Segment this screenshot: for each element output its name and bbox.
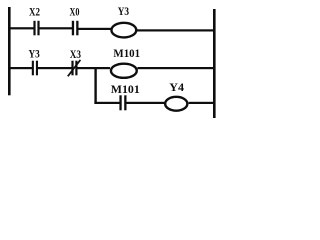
- contact M101: [119, 95, 126, 110]
- svg-text:X0: X0: [70, 7, 80, 19]
- svg-text:Y3: Y3: [29, 48, 40, 60]
- wire X2 to X0: [40, 27, 73, 29]
- svg-text:Y3: Y3: [118, 6, 130, 18]
- wire X0 to Y3 coil: [79, 28, 112, 30]
- branch wire down: [94, 67, 96, 104]
- wire X3 to M101 coil: [78, 67, 111, 69]
- wire Y4 coil to right rail: [189, 102, 214, 104]
- svg-text:Y4: Y4: [169, 82, 184, 94]
- left power rail: [8, 7, 11, 95]
- coil Y4: [165, 97, 187, 111]
- coil Y3: [111, 23, 136, 38]
- svg-text:M101: M101: [113, 48, 140, 60]
- svg-text:X2: X2: [29, 6, 40, 18]
- coil M101: [111, 64, 137, 78]
- svg-text:X3: X3: [70, 49, 81, 61]
- wire M101 coil to right rail: [138, 67, 214, 69]
- wire rung2 rail to Y3 contact: [9, 67, 33, 69]
- contact X3 (NC): [68, 60, 81, 76]
- wire Y3 coil to right rail: [137, 29, 214, 31]
- contact Y3: [32, 61, 38, 76]
- wire rung3 branch to M101 contact: [94, 102, 120, 104]
- wire rung1 rail to X2: [9, 27, 34, 29]
- right power rail: [213, 9, 216, 118]
- wire M101 contact to Y4 coil: [127, 102, 165, 104]
- wire Y3 contact to X3: [38, 67, 72, 69]
- svg-text:M101: M101: [111, 84, 140, 96]
- contact X0: [72, 21, 79, 36]
- contact X2: [33, 21, 39, 36]
